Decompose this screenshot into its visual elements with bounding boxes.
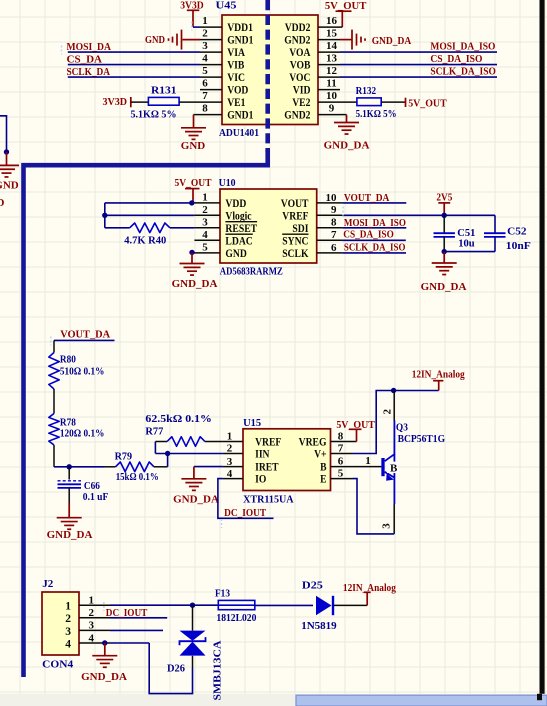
svg-text:D25: D25: [302, 579, 324, 591]
svg-text:R132: R132: [356, 85, 377, 97]
svg-text:1812L020: 1812L020: [216, 612, 256, 624]
svg-text:7: 7: [331, 229, 337, 241]
svg-text:11: 11: [326, 77, 336, 89]
svg-text:10: 10: [326, 90, 338, 102]
svg-text:U45: U45: [216, 0, 238, 11]
svg-text:GND1: GND1: [227, 110, 253, 122]
svg-text:3: 3: [65, 626, 71, 638]
svg-text:4.7K R40: 4.7K R40: [124, 234, 166, 246]
svg-text:VOA: VOA: [289, 47, 311, 59]
svg-text:Q3: Q3: [396, 421, 408, 433]
svg-text:R77: R77: [145, 426, 163, 438]
svg-text:B: B: [390, 462, 398, 474]
svg-text:VOC: VOC: [289, 72, 310, 84]
svg-text:0.1 uF: 0.1 uF: [83, 491, 109, 503]
svg-text:6: 6: [202, 77, 208, 89]
svg-text:16: 16: [326, 15, 338, 27]
svg-text:2: 2: [89, 607, 95, 619]
svg-text:2: 2: [381, 409, 393, 415]
svg-text:2: 2: [202, 27, 208, 39]
svg-text:1: 1: [202, 192, 208, 204]
svg-text:XTR115UA: XTR115UA: [243, 494, 294, 506]
svg-text:J2: J2: [42, 578, 54, 590]
svg-text:7: 7: [338, 443, 344, 455]
svg-text:5.1KΩ 5%: 5.1KΩ 5%: [356, 108, 397, 120]
svg-text:9: 9: [331, 204, 337, 216]
svg-text:8: 8: [202, 102, 208, 114]
svg-text:3: 3: [202, 217, 208, 229]
svg-text:510Ω 0.1%: 510Ω 0.1%: [60, 365, 105, 377]
svg-text:GND_DA: GND_DA: [81, 671, 127, 683]
svg-text:SYNC: SYNC: [282, 235, 308, 247]
svg-text:SCLK_DA_ISO: SCLK_DA_ISO: [430, 66, 496, 78]
svg-text:SMBJ13CA: SMBJ13CA: [212, 640, 224, 700]
svg-text:2V5: 2V5: [436, 191, 452, 203]
svg-text:1: 1: [89, 595, 95, 607]
svg-text:VREG: VREG: [299, 437, 327, 449]
svg-text:VOUT: VOUT: [281, 198, 309, 210]
svg-text:DC_IOUT: DC_IOUT: [106, 607, 148, 619]
svg-text:R80: R80: [60, 354, 76, 366]
svg-text:BCP56T1G: BCP56T1G: [398, 433, 446, 445]
svg-text:VIB: VIB: [227, 60, 244, 72]
svg-text:120Ω 0.1%: 120Ω 0.1%: [60, 428, 105, 440]
svg-text:VOUT_DA: VOUT_DA: [60, 328, 110, 340]
svg-text:GND_DA: GND_DA: [173, 493, 219, 505]
svg-text:5: 5: [338, 468, 344, 480]
svg-text:GND1: GND1: [227, 35, 253, 47]
svg-text:5: 5: [202, 242, 208, 254]
svg-text:10nF: 10nF: [506, 240, 531, 252]
svg-text:IO: IO: [255, 474, 266, 486]
svg-text:ADU1401: ADU1401: [219, 127, 259, 139]
svg-text:2: 2: [65, 613, 71, 625]
svg-text:1: 1: [65, 601, 71, 613]
svg-text:10: 10: [326, 192, 338, 204]
svg-text:2: 2: [227, 443, 233, 455]
svg-text:62.5kΩ 0.1%: 62.5kΩ 0.1%: [145, 413, 212, 425]
svg-text:U10: U10: [219, 177, 236, 189]
svg-text:CON4: CON4: [42, 659, 74, 671]
svg-text:10u: 10u: [458, 237, 475, 249]
svg-text:GND_DA: GND_DA: [421, 281, 467, 293]
svg-text:U15: U15: [243, 417, 261, 429]
svg-text:Vlogic: Vlogic: [225, 210, 251, 222]
svg-text:12IN_Analog: 12IN_Analog: [343, 582, 396, 594]
svg-text:VOD: VOD: [227, 85, 248, 97]
svg-text:CS_DA_ISO: CS_DA_ISO: [343, 229, 394, 241]
svg-text:4: 4: [202, 52, 208, 64]
svg-text:GND: GND: [181, 140, 206, 152]
svg-text:R79: R79: [115, 450, 133, 462]
svg-text:4: 4: [89, 632, 95, 644]
svg-text:4: 4: [227, 468, 233, 480]
svg-text:IRET: IRET: [255, 462, 279, 474]
svg-text:CS_DA: CS_DA: [67, 53, 103, 65]
svg-text:V+: V+: [314, 449, 326, 461]
svg-text:3: 3: [227, 456, 233, 468]
svg-text:1: 1: [365, 455, 371, 467]
svg-text:GND_DA: GND_DA: [324, 139, 370, 151]
svg-text:12IN_Analog: 12IN_Analog: [412, 369, 465, 381]
svg-text:4: 4: [65, 638, 71, 650]
svg-text:R78: R78: [60, 416, 76, 428]
svg-text:DC_IOUT: DC_IOUT: [224, 507, 267, 519]
svg-text:AD5683RARMZ: AD5683RARMZ: [220, 265, 283, 277]
svg-text:SCLK: SCLK: [282, 248, 308, 260]
svg-text:VDD1: VDD1: [227, 22, 253, 34]
svg-text:VE2: VE2: [292, 97, 311, 109]
svg-text:8: 8: [338, 431, 344, 443]
svg-text:3: 3: [380, 523, 392, 529]
svg-text:SCLK_DA: SCLK_DA: [67, 66, 111, 78]
svg-text:D: D: [0, 197, 5, 209]
svg-text:3: 3: [202, 40, 208, 52]
svg-text:GND: GND: [225, 248, 246, 260]
svg-text:VDD: VDD: [225, 198, 246, 210]
svg-text:GND_DA: GND_DA: [372, 35, 412, 47]
svg-text:C52: C52: [507, 226, 527, 238]
svg-text:VOUT_DA: VOUT_DA: [344, 192, 390, 204]
svg-text:9: 9: [329, 102, 335, 114]
svg-text:MOSI_DA: MOSI_DA: [67, 41, 112, 53]
svg-text:SCLK_DA_ISO: SCLK_DA_ISO: [344, 242, 406, 254]
svg-text:GND2: GND2: [284, 110, 310, 122]
svg-text:5: 5: [202, 65, 208, 77]
svg-text:IIN: IIN: [255, 449, 270, 461]
svg-text:15: 15: [326, 27, 338, 39]
svg-text:7: 7: [202, 90, 208, 102]
svg-text:3: 3: [89, 620, 95, 632]
svg-text:6: 6: [338, 456, 344, 468]
svg-text:GND_DA: GND_DA: [47, 529, 93, 541]
svg-text:5.1KΩ 5%: 5.1KΩ 5%: [131, 108, 177, 120]
svg-text:GND_DA: GND_DA: [172, 278, 218, 290]
svg-text:VE1: VE1: [227, 97, 246, 109]
svg-text:E: E: [320, 474, 327, 486]
svg-text:F13: F13: [215, 588, 230, 600]
svg-text:LDAC: LDAC: [225, 235, 252, 247]
svg-text:3V3D: 3V3D: [103, 96, 128, 108]
svg-text:VIA: VIA: [227, 47, 245, 59]
svg-text:R131: R131: [151, 84, 177, 96]
svg-text:VOB: VOB: [290, 60, 311, 72]
svg-text:GND: GND: [145, 34, 165, 46]
svg-text:15kΩ 0.1%: 15kΩ 0.1%: [116, 471, 159, 483]
svg-text:5V_OUT: 5V_OUT: [408, 98, 447, 110]
svg-text:GND: GND: [0, 179, 19, 191]
svg-text:VDD2: VDD2: [285, 22, 311, 34]
svg-text:MOSI_DA_ISO: MOSI_DA_ISO: [430, 41, 495, 53]
svg-text:1: 1: [202, 15, 208, 27]
svg-text:MOSI_DA_ISO: MOSI_DA_ISO: [344, 217, 406, 229]
svg-text:CS_DA_ISO: CS_DA_ISO: [430, 53, 482, 65]
svg-text:4: 4: [202, 229, 208, 241]
svg-text:GND2: GND2: [284, 35, 310, 47]
svg-text:B: B: [320, 462, 327, 474]
svg-text:VREF: VREF: [282, 210, 308, 222]
svg-text:1N5819: 1N5819: [301, 620, 337, 632]
svg-text:13: 13: [326, 52, 338, 64]
svg-text:VID: VID: [293, 85, 311, 97]
svg-text:VIC: VIC: [227, 72, 245, 84]
svg-text:2: 2: [202, 204, 208, 216]
svg-text:SDI: SDI: [292, 223, 309, 235]
svg-text:6: 6: [331, 242, 337, 254]
svg-text:8: 8: [331, 217, 337, 229]
svg-text:1: 1: [227, 431, 233, 443]
svg-text:5V_OUT: 5V_OUT: [175, 177, 213, 189]
svg-text:12: 12: [326, 65, 338, 77]
svg-text:14: 14: [326, 40, 338, 52]
svg-text:5V_OUT: 5V_OUT: [325, 0, 367, 12]
svg-text:VREF: VREF: [255, 437, 281, 449]
svg-text:D26: D26: [167, 662, 185, 674]
svg-text:RESET: RESET: [225, 223, 257, 235]
